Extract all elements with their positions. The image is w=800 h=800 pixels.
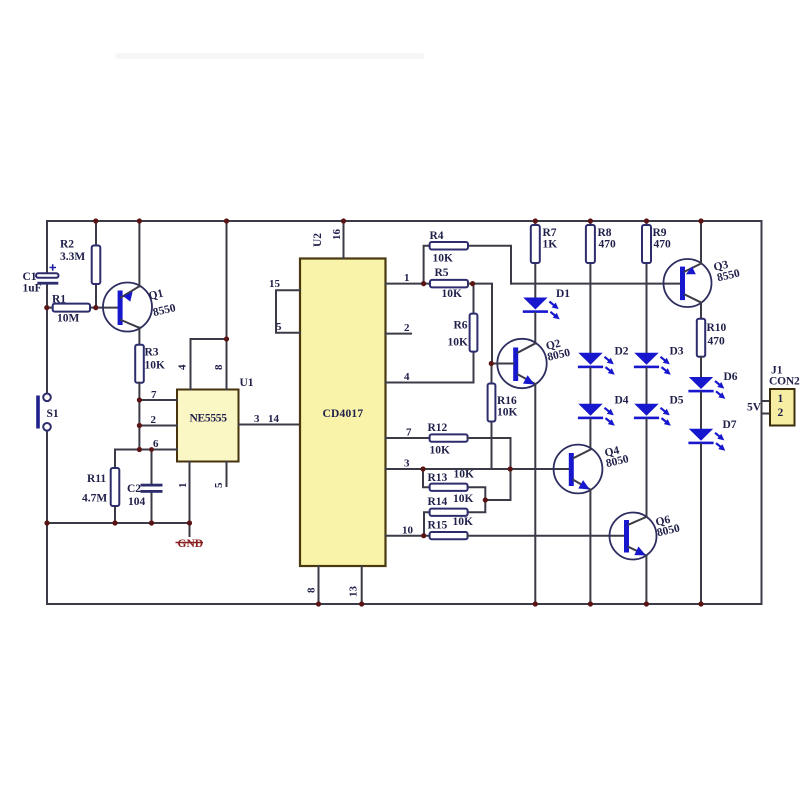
LED D7 (688, 429, 725, 451)
wire Q3 emitter to top rail (700, 221, 702, 264)
svg-text:15: 15 (269, 278, 281, 290)
node dot top rail R7 (533, 218, 538, 223)
LED D4 (578, 404, 615, 426)
node dot bottom rail pin8 (316, 601, 321, 606)
node dot pin1 row R4 (421, 281, 426, 286)
svg-text:R13: R13 (428, 472, 448, 484)
resistor R6 (470, 284, 478, 383)
svg-text:R5: R5 (435, 267, 449, 279)
node dot pin6 row C2 (149, 447, 154, 452)
resistor R16 (488, 364, 496, 470)
svg-text:C2: C2 (127, 483, 141, 495)
wire left rail mid segment (46, 285, 48, 394)
svg-text:8: 8 (306, 587, 318, 593)
svg-text:10K: 10K (430, 445, 451, 457)
node dot top rail R9 (644, 218, 649, 223)
svg-text:4: 4 (404, 371, 410, 383)
wire D4 to Q4 collector (589, 419, 591, 449)
switch S1 (38, 394, 51, 431)
svg-text:R11: R11 (87, 473, 106, 485)
svg-text:4: 4 (177, 364, 189, 370)
LED D3 (634, 353, 671, 375)
resistor R11 (111, 450, 120, 524)
svg-text:10K: 10K (453, 516, 474, 528)
node dot bottom rail pin13 (359, 601, 364, 606)
wire ground bus (47, 522, 190, 524)
wire D1 to Q2 collector (534, 313, 536, 343)
svg-text:7: 7 (151, 389, 157, 401)
node dot R1 left (44, 305, 49, 310)
wire left rail upper segment (46, 221, 48, 274)
svg-text:U1: U1 (240, 377, 254, 389)
node dot pin10 row R14 (421, 533, 426, 538)
label R6 value (448, 320, 469, 349)
svg-text:C1: C1 (23, 271, 37, 283)
wire U2 pin 16 to top rail (343, 221, 345, 259)
label C1 value (23, 271, 42, 295)
svg-text:1: 1 (404, 272, 410, 284)
wire U1 pin 6 (115, 449, 177, 451)
node dot pin6 row R3 (137, 447, 142, 452)
node dot ground bus C2 (149, 520, 154, 525)
svg-text:D6: D6 (724, 371, 738, 383)
svg-text:D7: D7 (723, 419, 737, 431)
svg-text:3.3M: 3.3M (60, 251, 85, 263)
label R10 value (707, 322, 727, 348)
IC U2 CD4017 box (300, 259, 386, 567)
connector J1 CON2 box (770, 389, 795, 426)
svg-text:6: 6 (153, 438, 159, 450)
resistor R9 (642, 221, 651, 353)
svg-text:10K: 10K (145, 360, 166, 372)
node dot pin2 row (137, 423, 142, 428)
wire node row to Q3 base (511, 283, 680, 285)
svg-text:13: 13 (348, 586, 360, 598)
wire D2 to D4 (589, 368, 591, 404)
resistor R14 (424, 500, 485, 536)
label R5 value (435, 267, 463, 300)
wire D5 to Q6 collector (646, 419, 648, 517)
svg-text:R12: R12 (428, 422, 448, 434)
wire U1 pin 2 (139, 425, 177, 427)
svg-text:10K: 10K (448, 337, 469, 349)
transistor Q4 (554, 445, 603, 494)
label R13 value (428, 469, 475, 485)
svg-text:U2: U2 (312, 233, 324, 247)
node dot ground bus pin1 (187, 520, 192, 525)
svg-text:2: 2 (404, 322, 410, 334)
transistor Q6 (610, 513, 657, 560)
transistor Q3 (664, 259, 712, 307)
svg-text:10: 10 (402, 525, 414, 537)
svg-text:10K: 10K (497, 407, 518, 419)
svg-text:10K: 10K (442, 288, 463, 300)
svg-text:R3: R3 (145, 347, 159, 359)
LED D2 (578, 353, 615, 375)
svg-text:R7: R7 (543, 227, 557, 239)
wire right rail (761, 221, 763, 604)
node dot top rail R8 (588, 218, 593, 223)
svg-text:D4: D4 (615, 395, 629, 407)
label R4 value (430, 230, 454, 265)
svg-text:1K: 1K (543, 239, 558, 251)
node dot top rail Q1 (137, 218, 142, 223)
node dot pin7 row (137, 397, 142, 402)
svg-text:14: 14 (268, 413, 280, 425)
label Q3 value (712, 257, 741, 285)
label R7 value (543, 227, 558, 251)
label R12 value (428, 422, 451, 457)
label R2 value (60, 239, 85, 264)
node dot bottom rail Q6 (644, 601, 649, 606)
svg-text:R2: R2 (60, 239, 74, 251)
resistor R10 (697, 319, 705, 377)
label R8 value (598, 227, 617, 251)
wire bottom rail (47, 603, 762, 605)
node dot pin3 row R13 (420, 466, 425, 471)
LED D6 (688, 377, 725, 399)
svg-text:D5: D5 (670, 395, 684, 407)
resistor R1 (47, 304, 118, 312)
capacitor C1 (36, 264, 59, 284)
svg-text:10K: 10K (433, 253, 454, 265)
wire U2 pin 3 row to Q4 base (386, 468, 570, 470)
svg-text:R8: R8 (598, 227, 612, 239)
svg-text:R1: R1 (52, 294, 66, 306)
connector J1 stub pin 1 (762, 400, 771, 402)
wire U2 pin 10 row (386, 535, 430, 537)
svg-text:470: 470 (654, 239, 672, 251)
transistor Q1 (103, 283, 152, 332)
svg-text:CD4017: CD4017 (323, 408, 364, 420)
wire top rail (47, 220, 762, 222)
resistor R2 (92, 221, 101, 308)
svg-text:3: 3 (254, 413, 260, 425)
wire U1 pin 7 (139, 399, 177, 401)
svg-text:5: 5 (276, 321, 282, 333)
svg-text:470: 470 (708, 336, 726, 348)
LED D1 (523, 298, 560, 320)
wire U2 pin 13 to bottom rail (361, 566, 363, 604)
svg-text:2: 2 (778, 407, 784, 419)
svg-text:4.7M: 4.7M (82, 493, 107, 505)
wire D7 to bottom rail (700, 444, 702, 604)
svg-text:R9: R9 (653, 227, 667, 239)
wire U2 pin 15 / pin 5 loop (276, 290, 300, 333)
label Q4 value (602, 443, 630, 470)
node dot pin3 row link (508, 466, 513, 471)
svg-text:R10: R10 (707, 322, 727, 334)
svg-text:R16: R16 (497, 395, 517, 407)
wire U1 pin 8 to top rail (226, 221, 228, 390)
LED D5 (634, 404, 671, 426)
node dot top rail pin16 (341, 218, 346, 223)
node dot bottom rail Q2 (533, 601, 538, 606)
svg-text:10K: 10K (454, 469, 475, 481)
wire U2 pin 8 to bottom rail (318, 566, 320, 604)
svg-text:D1: D1 (556, 288, 570, 300)
svg-text:R6: R6 (454, 320, 468, 332)
svg-text:104: 104 (128, 496, 146, 508)
label Q2 value (544, 336, 572, 364)
wire Q1 collector to top rail (138, 221, 140, 287)
wire U2 pin 7 row (386, 437, 430, 439)
wire U1 pin 3 to U2 pin 14 (239, 424, 301, 426)
label R11 value (82, 473, 107, 505)
svg-text:R4: R4 (430, 230, 444, 242)
transistor Q2 (492, 339, 547, 388)
label C2 value (127, 483, 146, 508)
node dot pin4 pin8 jog (224, 336, 229, 341)
wire Q3 collector to R10 (700, 303, 702, 319)
svg-text:470: 470 (599, 239, 617, 251)
label R14 value (428, 493, 474, 508)
label R16 value (497, 395, 518, 419)
wire D6 to D7 (700, 392, 702, 428)
resistor R4 (424, 242, 511, 284)
label R1 value (52, 294, 80, 325)
wire Q6 emitter to bottom rail (645, 556, 647, 604)
node dot bottom rail Q4 (588, 601, 593, 606)
resistor R15 (430, 532, 624, 539)
svg-text:R14: R14 (428, 496, 448, 508)
node dot Q2 base (489, 361, 494, 366)
node dot bottom rail D7 (698, 601, 703, 606)
svg-text:D2: D2 (615, 346, 629, 358)
svg-text:1: 1 (177, 483, 189, 489)
wire U1 pin 1 to ground bus (189, 462, 191, 537)
node dot ground bus left (44, 520, 49, 525)
svg-text:D3: D3 (670, 346, 684, 358)
svg-text:3: 3 (404, 458, 410, 470)
op-amp U1 NE555 box (177, 390, 239, 462)
node dot pin1 row R5 right (470, 281, 475, 286)
capacitor C2 (141, 450, 163, 524)
node dot R13 R14 link (483, 497, 488, 502)
svg-text:1uF: 1uF (23, 283, 42, 295)
wire U2 pin 4 row (386, 382, 474, 384)
label R15 value (428, 516, 474, 532)
svg-text:7: 7 (406, 427, 412, 439)
resistor R3 (135, 345, 144, 450)
svg-text:1: 1 (778, 393, 784, 405)
wire U1 pin 5 stub (226, 462, 228, 487)
resistor R12 (430, 434, 511, 469)
svg-text:CON2: CON2 (769, 376, 800, 388)
resistor R5 (430, 280, 492, 364)
resistor R8 (586, 221, 595, 353)
wire left rail lower segment (46, 431, 48, 605)
faint smudge top (115, 53, 425, 59)
label Q1 value (148, 286, 178, 320)
resistor R13 (423, 469, 485, 500)
wire D3 to D5 (646, 368, 648, 404)
ground symbol GND (176, 538, 204, 550)
wire U2 pin 2 stub (386, 333, 412, 335)
wire U1 pin 4 jog (191, 339, 227, 390)
resistor R7 (531, 221, 540, 298)
node dot R1 right (93, 305, 98, 310)
svg-text:NE5555: NE5555 (190, 413, 228, 425)
label Q6 value (654, 512, 682, 539)
svg-text:8: 8 (213, 364, 225, 370)
svg-text:GND: GND (178, 538, 204, 550)
svg-text:R15: R15 (428, 520, 448, 532)
svg-text:10K: 10K (453, 493, 474, 505)
svg-text:16: 16 (331, 229, 343, 241)
connector J1 stub pin 2 (762, 413, 771, 415)
node dot top rail Q3 (698, 218, 703, 223)
svg-text:10M: 10M (57, 313, 80, 325)
node dot top rail R2 (93, 218, 98, 223)
wire R13 R14 junction link (485, 469, 510, 500)
svg-text:5: 5 (213, 482, 225, 488)
label R9 value (653, 227, 672, 251)
svg-text:2: 2 (151, 414, 157, 426)
svg-text:5V: 5V (747, 402, 762, 414)
label R3 value (145, 347, 166, 372)
node dot top rail pin8 (224, 218, 229, 223)
wire Q2 emitter to bottom rail (534, 384, 536, 604)
node dot ground bus R11 (112, 520, 117, 525)
svg-text:S1: S1 (47, 408, 59, 420)
wire Q4 emitter to bottom rail (589, 490, 591, 604)
wire U2 pin 1 row (386, 283, 431, 285)
wire Q1 emitter to R3 (138, 328, 140, 345)
